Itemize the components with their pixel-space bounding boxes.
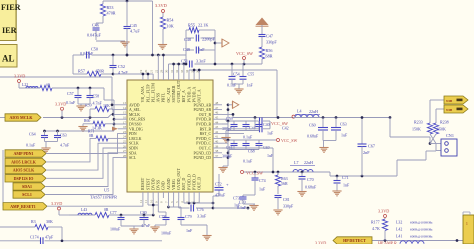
svg-text:PVDD_C: PVDD_C (196, 137, 211, 141)
svg-text:SCL: SCL (129, 156, 137, 160)
svg-text:14: 14 (123, 106, 127, 110)
svg-text:C41: C41 (249, 126, 256, 131)
svg-text:1uF: 1uF (341, 133, 348, 138)
svg-text:C68: C68 (248, 149, 255, 154)
svg-text:C46: C46 (92, 23, 99, 28)
svg-text:300pF: 300pF (222, 154, 233, 159)
svg-text:C55: C55 (248, 72, 255, 77)
svg-text:C71: C71 (342, 175, 349, 180)
svg-text:C72: C72 (215, 182, 222, 187)
svg-text:4.7K: 4.7K (372, 226, 380, 231)
svg-text:SDA: SDA (129, 151, 137, 155)
svg-text:AIO5 MCLK: AIO5 MCLK (10, 115, 34, 120)
svg-text:C70: C70 (307, 177, 314, 182)
svg-text:R177: R177 (371, 220, 380, 225)
svg-text:9.5B: 9.5B (446, 108, 453, 112)
svg-text:L32: L32 (396, 221, 402, 225)
svg-text:3.3VD: 3.3VD (155, 3, 167, 8)
svg-text:37: 37 (215, 154, 219, 158)
svg-text:C78: C78 (159, 214, 166, 219)
svg-text:22uH: 22uH (304, 160, 313, 165)
svg-text:100nF: 100nF (161, 231, 172, 236)
svg-text:5nF: 5nF (198, 47, 205, 52)
svg-text:1nF: 1nF (234, 203, 241, 208)
svg-text:100nF: 100nF (110, 227, 121, 232)
svg-text:C67: C67 (368, 144, 375, 149)
svg-text:4.7uF: 4.7uF (130, 29, 140, 34)
svg-text:L42: L42 (396, 228, 402, 232)
svg-text:600R@100MHz: 600R@100MHz (410, 228, 433, 232)
svg-text:30K: 30K (46, 219, 53, 224)
svg-text:LRCLK: LRCLK (129, 137, 142, 141)
svg-text:PVDD_B: PVDD_B (196, 123, 211, 127)
svg-text:C64: C64 (29, 132, 36, 137)
svg-text:C52: C52 (118, 64, 125, 69)
svg-text:CN1: CN1 (446, 133, 454, 138)
svg-text:R55: R55 (188, 23, 195, 28)
svg-text:27: 27 (123, 149, 127, 153)
svg-text:C40: C40 (263, 122, 270, 127)
svg-text:C48: C48 (184, 37, 191, 42)
svg-text:3.3nF: 3.3nF (197, 213, 207, 218)
svg-text:1nF: 1nF (186, 228, 193, 233)
svg-text:HP DETECT: HP DETECT (343, 238, 366, 243)
svg-text:C60: C60 (309, 123, 316, 128)
svg-text:C73: C73 (233, 196, 240, 201)
svg-text:OUT_A: OUT_A (197, 89, 202, 102)
svg-text:26: 26 (123, 144, 127, 148)
svg-text:DSP I2S IO: DSP I2S IO (14, 176, 34, 181)
svg-text:23: 23 (123, 130, 127, 134)
svg-text:0.68nF: 0.68nF (305, 185, 317, 190)
svg-text:3.3VD: 3.3VD (55, 102, 66, 107)
svg-text:R60: R60 (84, 119, 90, 123)
svg-text:470uF: 470uF (215, 193, 226, 198)
svg-text:OUT_B: OUT_B (199, 113, 212, 117)
svg-text:SDIN: SDIN (129, 147, 138, 151)
svg-text:C58: C58 (93, 94, 100, 99)
svg-text:L7: L7 (294, 160, 298, 165)
svg-text:VR_DIG: VR_DIG (129, 127, 143, 131)
svg-text:C66: C66 (226, 145, 233, 150)
svg-text:VCC_SW: VCC_SW (236, 51, 253, 56)
svg-text:0.047uF: 0.047uF (80, 51, 94, 56)
svg-text:MCLK: MCLK (129, 113, 140, 117)
svg-text:0R: 0R (89, 134, 94, 138)
svg-text:L43: L43 (81, 208, 87, 212)
svg-text:1nF: 1nF (343, 183, 350, 188)
svg-text:PVDD_C: PVDD_C (196, 142, 211, 146)
svg-text:10: 10 (149, 199, 153, 203)
svg-text:TAS5711PHPR: TAS5711PHPR (90, 195, 117, 200)
svg-text:39: 39 (215, 144, 219, 148)
svg-text:R56: R56 (266, 48, 273, 53)
svg-text:0.1uF: 0.1uF (66, 100, 76, 105)
svg-text:C74: C74 (259, 178, 266, 183)
svg-text:470R: 470R (95, 69, 104, 74)
svg-text:C63: C63 (60, 133, 67, 138)
svg-text:3.3nF: 3.3nF (196, 59, 206, 64)
svg-text:OUT_C: OUT_C (199, 147, 212, 151)
svg-text:PGND_CD: PGND_CD (193, 151, 211, 155)
svg-text:17: 17 (123, 120, 127, 124)
svg-text:PVDD_B: PVDD_B (196, 118, 211, 122)
svg-text:150K: 150K (437, 127, 446, 132)
svg-text:U5: U5 (104, 188, 109, 193)
svg-text:3.3VD: 3.3VD (14, 74, 25, 79)
svg-text:C49: C49 (183, 47, 190, 52)
svg-text:R53: R53 (107, 5, 114, 10)
svg-text:470R: 470R (107, 11, 116, 16)
svg-text:R59: R59 (85, 103, 92, 108)
svg-text:0.68nF: 0.68nF (307, 134, 319, 139)
svg-text:3.3VD: 3.3VD (51, 201, 62, 206)
svg-text:44: 44 (215, 120, 219, 124)
svg-text:330pF: 330pF (266, 40, 277, 45)
svg-text:IER: IER (2, 26, 17, 35)
svg-text:43: 43 (215, 125, 219, 129)
svg-text:DVSSO: DVSSO (129, 123, 142, 127)
svg-text:28: 28 (123, 154, 127, 158)
svg-text:13: 13 (123, 101, 127, 105)
svg-text:68R: 68R (266, 54, 273, 59)
svg-text:R3: R3 (31, 219, 36, 224)
svg-text:AL: AL (2, 54, 15, 64)
svg-text:C42: C42 (282, 126, 289, 131)
svg-text:C54: C54 (233, 72, 240, 77)
svg-text:9.5B: 9.5B (446, 99, 453, 103)
svg-text:L41: L41 (396, 235, 402, 239)
svg-text:24: 24 (123, 135, 127, 139)
svg-text:10K: 10K (167, 24, 174, 29)
svg-text:PGND_CD: PGND_CD (193, 156, 211, 160)
svg-text:PDN: PDN (129, 132, 137, 136)
svg-text:C47: C47 (266, 34, 273, 39)
svg-text:2200pF: 2200pF (202, 37, 215, 42)
svg-text:C57: C57 (67, 91, 74, 96)
svg-text:R54: R54 (167, 18, 175, 23)
svg-text:22uH: 22uH (309, 109, 318, 114)
svg-text:FIER: FIER (1, 3, 21, 12)
svg-text:4.7nF: 4.7nF (141, 223, 151, 228)
svg-text:150K: 150K (412, 127, 421, 132)
svg-text:C59: C59 (226, 116, 233, 121)
svg-text:PGND_AB: PGND_AB (193, 103, 211, 107)
svg-text:C45: C45 (130, 23, 137, 28)
svg-text:C69: C69 (263, 145, 270, 150)
svg-text:+: + (226, 182, 229, 187)
svg-text:0R: 0R (104, 208, 109, 212)
svg-text:47: 47 (215, 106, 219, 110)
svg-text:R71: R71 (88, 130, 94, 134)
svg-text:1: 1 (466, 222, 468, 226)
svg-text:4.7nF: 4.7nF (93, 101, 103, 106)
svg-text:PGND_AB: PGND_AB (193, 108, 211, 112)
svg-text:3.3VD: 3.3VD (378, 209, 389, 214)
svg-text:16: 16 (123, 116, 127, 120)
svg-text:0.1uF: 0.1uF (243, 159, 253, 164)
svg-text:R233: R233 (414, 120, 423, 125)
svg-text:C77: C77 (110, 210, 117, 215)
svg-text:C51: C51 (181, 59, 188, 64)
svg-text:0.1uF: 0.1uF (227, 83, 237, 88)
svg-text:600R@100MHz: 600R@100MHz (410, 235, 433, 239)
svg-text:38: 38 (215, 149, 219, 153)
svg-text:3.3VD: 3.3VD (315, 241, 326, 244)
svg-text:2nF: 2nF (363, 150, 370, 155)
svg-text:SDA1: SDA1 (22, 184, 32, 189)
svg-text:47pF: 47pF (45, 235, 54, 240)
svg-text:56R: 56R (281, 181, 288, 186)
svg-text:C63: C63 (340, 122, 347, 127)
svg-text:1uF: 1uF (259, 187, 266, 192)
svg-text:C81: C81 (283, 197, 290, 202)
svg-text:22.1K: 22.1K (198, 23, 208, 28)
svg-text:0.047uF: 0.047uF (87, 33, 102, 38)
svg-text:C76: C76 (197, 207, 204, 212)
svg-text:15: 15 (123, 111, 127, 115)
svg-text:BST_B: BST_B (200, 127, 212, 131)
svg-text:L4: L4 (297, 109, 301, 114)
svg-text:A_SEL: A_SEL (129, 108, 141, 112)
svg-text:SCL1: SCL1 (22, 192, 32, 197)
svg-text:41: 41 (215, 135, 219, 139)
svg-text:19: 19 (139, 69, 143, 73)
svg-text:OSC_RES: OSC_RES (129, 118, 145, 122)
svg-text:BST_C: BST_C (200, 132, 212, 136)
svg-text:1uF: 1uF (267, 131, 274, 136)
svg-text:0.1uF: 0.1uF (243, 135, 253, 140)
svg-text:0R: 0R (46, 84, 51, 88)
svg-text:0.1uF: 0.1uF (26, 143, 36, 148)
svg-text:1nF: 1nF (247, 83, 254, 88)
svg-text:C80: C80 (140, 210, 147, 215)
svg-text:45: 45 (215, 116, 219, 120)
svg-text:R57: R57 (78, 69, 85, 74)
svg-text:330pF: 330pF (283, 204, 294, 209)
svg-text:25: 25 (123, 140, 127, 144)
svg-text:21: 21 (149, 69, 153, 73)
svg-text:R238: R238 (440, 120, 449, 125)
svg-text:VCC_SW: VCC_SW (281, 138, 297, 143)
svg-text:46: 46 (215, 111, 219, 115)
svg-text:40: 40 (215, 140, 219, 144)
svg-text:48: 48 (215, 101, 219, 105)
svg-text:20: 20 (144, 69, 148, 73)
svg-text:42: 42 (215, 130, 219, 134)
svg-text:18: 18 (123, 125, 127, 129)
svg-text:AMP PDN1: AMP PDN1 (13, 151, 33, 156)
svg-text:AMP_RESET1: AMP_RESET1 (10, 205, 36, 209)
svg-text:AIO5 LRCLK: AIO5 LRCLK (11, 160, 37, 165)
svg-text:HP AMP R: HP AMP R (378, 240, 397, 244)
svg-text:AIO5 SCLK: AIO5 SCLK (13, 168, 35, 173)
svg-text:C79: C79 (185, 214, 192, 219)
svg-text:SCLK: SCLK (129, 142, 139, 146)
svg-text:C174: C174 (30, 235, 39, 240)
svg-text:10K: 10K (103, 103, 110, 108)
svg-text:OUT_D: OUT_D (197, 177, 202, 190)
svg-text:AVDD: AVDD (129, 103, 140, 107)
svg-text:4.7nF: 4.7nF (60, 143, 70, 148)
svg-text:600R@100MHz: 600R@100MHz (410, 221, 433, 225)
